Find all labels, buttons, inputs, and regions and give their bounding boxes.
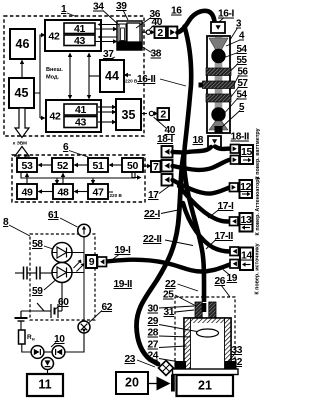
svg-text:22-II: 22-II xyxy=(143,234,162,245)
label 22-II xyxy=(143,234,193,246)
svg-text:13: 13 xyxy=(240,214,252,226)
svg-text:50: 50 xyxy=(127,160,139,172)
note to reference source xyxy=(255,243,261,294)
svg-text:22: 22 xyxy=(165,279,176,290)
svg-text:44: 44 xyxy=(105,69,119,83)
coupling capacitors xyxy=(15,267,52,280)
svg-text:31: 31 xyxy=(164,307,175,318)
label 4 xyxy=(226,31,245,47)
wire 20 to mixer xyxy=(148,383,157,385)
cable 16 xyxy=(178,11,215,33)
wires 41/43 upper to unit 39 xyxy=(95,22,118,43)
label 8 xyxy=(3,217,30,236)
block 46 xyxy=(10,29,35,59)
label 37 xyxy=(103,49,115,61)
svg-text:8: 8 xyxy=(3,217,9,228)
resonator 3 tube body xyxy=(207,36,230,133)
svg-text:48: 48 xyxy=(57,187,69,199)
circulator right of 10 xyxy=(52,346,65,359)
label 17-II xyxy=(206,231,233,249)
svg-text:17-II: 17-II xyxy=(215,231,234,242)
connector 18 top box xyxy=(211,22,225,33)
svg-text:41: 41 xyxy=(75,104,87,116)
bus wire in block 6 xyxy=(21,172,135,185)
svg-text:18: 18 xyxy=(193,135,204,146)
label 40 lower xyxy=(154,117,176,136)
label 24 xyxy=(148,351,181,363)
base 38 black bar xyxy=(117,42,142,50)
label 29 xyxy=(148,316,198,332)
label 30 xyxy=(148,304,195,315)
wire 51 to 52 xyxy=(74,163,89,167)
cable 17-II to 14 xyxy=(183,203,230,252)
wire 45 to modulator bus xyxy=(34,33,46,120)
block 43 upper xyxy=(64,35,95,47)
svg-text:53: 53 xyxy=(21,160,33,172)
meter 11 xyxy=(27,374,63,396)
label 61 xyxy=(48,210,78,227)
svg-text:27: 27 xyxy=(148,340,159,351)
label 5 xyxy=(223,102,246,127)
svg-text:21: 21 xyxy=(198,379,212,393)
cable 18-II xyxy=(215,147,231,150)
svg-text:19-I: 19-I xyxy=(115,245,132,256)
svg-text:20: 20 xyxy=(125,376,139,390)
label 39 xyxy=(116,1,128,20)
circulator left of 10 xyxy=(31,346,44,359)
svg-text:51: 51 xyxy=(92,160,104,172)
svg-text:1: 1 xyxy=(61,4,67,15)
svg-text:220 В: 220 В xyxy=(110,193,123,198)
label 34 xyxy=(93,2,120,26)
label 19-I xyxy=(113,245,131,259)
svg-text:58: 58 xyxy=(32,239,43,250)
valve 62 xyxy=(78,321,90,333)
photodiode 59 xyxy=(52,263,72,283)
svg-text:62: 62 xyxy=(102,302,113,313)
svg-text:н: н xyxy=(32,337,35,342)
block 43 lower xyxy=(64,117,97,129)
svg-text:7: 7 xyxy=(153,161,159,173)
svg-text:17-I: 17-I xyxy=(218,201,235,212)
photodiode 58 xyxy=(52,243,72,263)
label 55 xyxy=(231,55,248,71)
socket 13 xyxy=(230,217,239,226)
wire 48 to 49 xyxy=(38,189,54,193)
svg-text:42: 42 xyxy=(48,31,60,43)
svg-text:52: 52 xyxy=(57,160,69,172)
block 42 lower xyxy=(46,100,101,132)
hollow arrow to computer xyxy=(15,108,29,138)
label 16-II xyxy=(137,74,186,86)
block 42 upper xyxy=(45,20,101,51)
wire 48 to 52 xyxy=(61,173,65,185)
label 33 xyxy=(229,345,243,362)
svg-text:39: 39 xyxy=(116,1,127,12)
svg-text:6: 6 xyxy=(63,142,69,153)
svg-text:54: 54 xyxy=(237,44,248,55)
flange feet 33 xyxy=(175,361,237,369)
svg-text:2: 2 xyxy=(157,27,163,39)
svg-text:15: 15 xyxy=(241,146,253,158)
svg-text:К повер. Аттенюатору: К повер. Аттенюатору xyxy=(255,177,261,236)
text к ЭВМ xyxy=(13,141,27,146)
connector box 2 lower xyxy=(158,108,170,121)
label 36 xyxy=(136,9,161,28)
instrument 12 xyxy=(240,180,253,198)
svg-text:57: 57 xyxy=(238,78,249,89)
svg-text:43: 43 xyxy=(75,117,87,129)
label 32 xyxy=(232,357,243,370)
lens 54 upper ball xyxy=(211,49,225,63)
svg-text:9: 9 xyxy=(89,256,95,268)
label 17-I xyxy=(208,201,234,218)
hollow arrow from computer into block 6 xyxy=(15,147,29,161)
amplifier 9 xyxy=(72,237,97,321)
svg-text:19-II: 19-II xyxy=(114,279,133,290)
label 31 xyxy=(164,307,195,318)
label 60 xyxy=(54,297,69,310)
svg-text:35: 35 xyxy=(122,108,136,122)
svg-text:33: 33 xyxy=(232,345,243,356)
svg-text:17: 17 xyxy=(148,190,159,201)
isolator arrow into 21 xyxy=(157,375,175,392)
label 25 xyxy=(163,290,196,307)
svg-text:59: 59 xyxy=(32,286,43,297)
wire 44 to bus xyxy=(89,75,100,77)
block 6 dashed enclosure xyxy=(12,155,145,202)
resistor Rн xyxy=(19,321,36,344)
cable 18-I xyxy=(173,147,212,152)
text 220 В at 47 xyxy=(108,192,122,198)
light arrows xyxy=(74,260,85,272)
label 38 xyxy=(142,47,162,60)
svg-text:14: 14 xyxy=(241,250,253,262)
cable 16-II trunk to chamber xyxy=(184,27,204,310)
label 57 xyxy=(231,78,249,98)
wire 50 to 7 xyxy=(143,164,152,168)
cell 34 compartment xyxy=(119,24,126,41)
block 50 xyxy=(122,158,143,172)
svg-text:16-II: 16-II xyxy=(137,74,156,85)
svg-text:30: 30 xyxy=(148,304,159,315)
svg-text:49: 49 xyxy=(21,187,33,199)
instrument 15 xyxy=(240,145,253,164)
central rod xyxy=(215,37,223,132)
cable 19-II arc to mixer xyxy=(136,153,184,364)
label 6 xyxy=(63,142,88,157)
block 35 xyxy=(116,99,141,130)
label 19-II xyxy=(114,279,133,290)
block 49 xyxy=(17,184,37,199)
wire 47 to 48 xyxy=(74,189,89,193)
lens 54 lower ball xyxy=(211,107,225,121)
circulator 10 lower xyxy=(42,358,54,370)
svg-text:2: 2 xyxy=(160,109,166,121)
bottom cone 5 xyxy=(209,121,228,130)
svg-text:28: 28 xyxy=(148,328,159,339)
instrument 14 xyxy=(240,248,253,271)
label 56 xyxy=(234,67,249,85)
label 58 xyxy=(32,239,53,250)
svg-text:К повер. источнику: К повер. источнику xyxy=(255,243,261,294)
svg-text:11: 11 xyxy=(38,378,51,392)
svg-text:47: 47 xyxy=(92,187,104,199)
svg-text:16: 16 xyxy=(171,6,182,17)
label 16-I xyxy=(218,9,235,22)
block 44 xyxy=(100,60,124,92)
svg-text:56: 56 xyxy=(238,67,249,78)
connector box 2 upper xyxy=(155,27,167,39)
block 53 xyxy=(17,158,37,172)
svg-text:45: 45 xyxy=(15,86,29,100)
wire 45 to 46 xyxy=(20,60,24,79)
svg-text:29: 29 xyxy=(148,316,159,327)
svg-text:Мод.: Мод. xyxy=(46,75,60,81)
svg-text:19: 19 xyxy=(227,273,238,284)
block 52 xyxy=(52,158,73,172)
generator 20 xyxy=(116,372,148,394)
unit 39 housing xyxy=(117,21,142,50)
label 62 xyxy=(89,302,113,323)
svg-text:54: 54 xyxy=(237,90,248,101)
svg-text:41: 41 xyxy=(74,23,86,35)
svg-text:32: 32 xyxy=(232,357,243,368)
svg-text:к ЭВМ: к ЭВМ xyxy=(13,141,27,146)
output adapter box upper xyxy=(168,27,178,39)
cable 17-I to 13 xyxy=(179,186,230,222)
svg-text:34: 34 xyxy=(93,2,104,13)
ground xyxy=(15,311,28,321)
top cone 4 xyxy=(209,38,228,50)
cable socket boxes at 7 xyxy=(162,146,173,158)
svg-text:18-II: 18-II xyxy=(231,132,250,143)
socket 15 upper xyxy=(231,145,240,154)
label 27 xyxy=(148,340,187,351)
label 54 lower xyxy=(225,90,248,113)
label 1 xyxy=(61,4,76,17)
label 26 xyxy=(215,276,231,297)
disc 56 with side stub xyxy=(199,81,235,89)
label 23 xyxy=(125,354,156,367)
receiver 21 xyxy=(177,375,234,396)
svg-text:43: 43 xyxy=(74,35,86,47)
label 17 xyxy=(148,184,172,201)
svg-text:38: 38 xyxy=(151,49,162,60)
block 45 xyxy=(9,78,34,108)
label 28 xyxy=(148,328,191,339)
window 29 xyxy=(197,329,219,337)
svg-text:55: 55 xyxy=(237,55,248,66)
socket at 9 xyxy=(98,257,107,267)
wire 52 to 53 xyxy=(38,163,53,167)
label 10 xyxy=(51,334,65,347)
socket 15 lower xyxy=(231,156,240,165)
vertical bus arrows between 42 blocks xyxy=(68,53,91,100)
svg-text:220 В: 220 В xyxy=(125,79,138,84)
chamber 26 dashed enclosure xyxy=(175,297,235,373)
svg-text:16-I: 16-I xyxy=(218,9,235,20)
svg-text:24: 24 xyxy=(148,351,159,362)
label 22-I xyxy=(144,209,178,220)
wire 50 aux output xyxy=(132,172,142,180)
note to reference wattmeter xyxy=(255,128,261,179)
cell body 27 outer xyxy=(184,318,231,371)
wire Rн to tee xyxy=(22,344,31,352)
svg-text:42: 42 xyxy=(49,111,61,123)
label 3 xyxy=(231,19,243,40)
note to reference attenuator xyxy=(255,177,261,236)
block 41 lower xyxy=(64,104,97,116)
label 19 xyxy=(223,270,238,285)
connector 40 upper: circle xyxy=(142,30,155,34)
socket 12 xyxy=(230,183,239,192)
wires 41/43 lower to 35 xyxy=(98,105,117,124)
svg-text:25: 25 xyxy=(163,290,174,301)
cable to attenuator 12 xyxy=(173,180,230,194)
svg-text:12: 12 xyxy=(240,181,252,193)
connector 40 lower: circle xyxy=(141,111,158,115)
wire 49 to 53 xyxy=(25,173,29,185)
block 1 dashed enclosure xyxy=(4,16,144,136)
220V feed into 44 xyxy=(124,73,138,84)
block 47 xyxy=(88,184,108,199)
svg-text:22-I: 22-I xyxy=(144,209,161,220)
base plate 32 xyxy=(173,369,239,375)
svg-text:46: 46 xyxy=(16,37,30,51)
label 22 xyxy=(165,279,198,291)
wire 50 to 51 xyxy=(109,163,123,167)
block 8 dashed enclosure xyxy=(30,234,95,320)
bottom stub xyxy=(215,126,223,133)
cable 17 to wattmeter input xyxy=(173,160,231,170)
label 16 xyxy=(171,6,182,17)
label 59 xyxy=(32,281,55,298)
svg-text:61: 61 xyxy=(48,210,59,221)
socket 14 upper xyxy=(230,247,239,256)
wire 62 to tee xyxy=(65,333,84,352)
block 51 xyxy=(88,158,108,172)
text Внеш. Мод. xyxy=(46,67,63,81)
wire tee to 11 xyxy=(47,370,49,375)
cable tail into cap xyxy=(202,303,207,312)
svg-text:Внеш.: Внеш. xyxy=(46,67,63,73)
label 18 xyxy=(193,135,204,146)
label 40 upper xyxy=(150,17,163,30)
svg-text:23: 23 xyxy=(125,354,136,365)
block 36 window xyxy=(127,23,140,42)
svg-text:26: 26 xyxy=(215,276,226,287)
disc 55 xyxy=(206,68,231,76)
svg-text:60: 60 xyxy=(58,297,69,308)
label 18-II xyxy=(231,132,250,143)
connector 7 box xyxy=(151,161,161,173)
gland 25 cap xyxy=(195,302,216,318)
block 48 xyxy=(53,184,73,199)
wire between circulators xyxy=(44,351,52,353)
connector 18 bottom box xyxy=(208,136,221,147)
svg-text:К повер. ваттметру: К повер. ваттметру xyxy=(255,128,261,179)
lamp 61 xyxy=(78,224,91,237)
socket 14 lower xyxy=(230,260,239,269)
svg-text:40: 40 xyxy=(165,125,176,136)
mixer 23 diamond xyxy=(159,361,174,376)
label 54 upper xyxy=(226,44,248,57)
cable 19 from detector to 14 xyxy=(106,260,230,272)
label 18-I xyxy=(157,134,174,145)
disc 57 xyxy=(206,94,231,102)
block 41 upper xyxy=(64,23,95,35)
instrument 13 xyxy=(240,213,253,232)
switch and battery 60 xyxy=(21,283,62,319)
